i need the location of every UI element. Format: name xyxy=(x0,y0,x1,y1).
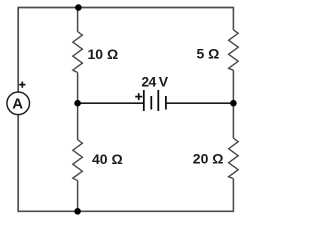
node top junction xyxy=(75,4,82,11)
svg-text:5 Ω: 5 Ω xyxy=(197,46,220,62)
wire bottom (left rail to right rail) xyxy=(18,210,233,212)
svg-text:40 Ω: 40 Ω xyxy=(92,151,123,167)
svg-text:20 Ω: 20 Ω xyxy=(193,151,224,167)
wire right middle xyxy=(232,70,234,138)
resistor R3 40 ohm xyxy=(73,140,83,181)
wire middle branch lower xyxy=(77,181,79,212)
svg-text:A: A xyxy=(12,96,23,113)
wire middle branch center xyxy=(77,73,79,140)
node bottom junction xyxy=(74,208,81,215)
wire middle branch upper xyxy=(77,7,79,32)
svg-text:24 V: 24 V xyxy=(141,73,168,89)
wire left lower (ammeter to bottom rail) xyxy=(17,115,19,213)
ammeter plus polarity mark xyxy=(19,82,25,88)
resistor R4 20 ohm xyxy=(229,138,239,179)
node middle-left junction xyxy=(74,100,81,107)
node middle-right junction xyxy=(230,100,237,107)
wire top (node A to right rail) xyxy=(18,7,233,9)
svg-text:10 Ω: 10 Ω xyxy=(88,46,119,62)
wire right lower xyxy=(232,179,234,212)
wire middle horizontal right of battery xyxy=(166,102,234,104)
wire right upper xyxy=(232,7,234,30)
resistor R2 5 ohm xyxy=(229,30,239,71)
wire left upper (top rail to ammeter) xyxy=(17,7,19,92)
ammeter A1 xyxy=(7,92,30,115)
wire middle horizontal left of battery xyxy=(78,102,144,104)
resistor R1 10 ohm xyxy=(73,32,83,73)
battery plus polarity mark xyxy=(135,93,142,100)
battery V1 plates xyxy=(143,90,145,111)
